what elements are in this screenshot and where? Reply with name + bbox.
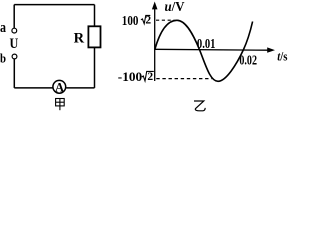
wire top (14, 4, 94, 6)
svg-text:2: 2 (147, 71, 153, 83)
svg-text:b: b (0, 51, 6, 66)
terminal a (12, 28, 17, 33)
svg-text:U: U (10, 36, 19, 52)
wire left upper (13, 5, 15, 29)
wire left lower (13, 59, 15, 88)
label jia (circuit caption) (56, 99, 65, 111)
svg-text:100: 100 (122, 13, 139, 28)
terminal b (12, 54, 17, 59)
x-axis t (155, 47, 275, 52)
wire bottom right (66, 87, 94, 89)
svg-text:0.01: 0.01 (197, 37, 216, 52)
svg-text:R: R (74, 31, 85, 47)
sine curve u(t) (155, 20, 253, 81)
dashed peak level (156, 19, 175, 21)
label 100sqrt2 (122, 13, 152, 28)
svg-text:u/V: u/V (165, 0, 185, 15)
wire bottom left (14, 87, 53, 89)
ammeter A1 (53, 80, 66, 94)
svg-text:A: A (55, 81, 64, 95)
wire right lower (94, 47, 96, 88)
y-axis u (152, 2, 158, 82)
label yi (graph caption) (194, 101, 205, 111)
dashed trough level (156, 78, 212, 80)
svg-text:t/s: t/s (277, 50, 287, 64)
svg-text:a: a (0, 20, 6, 36)
svg-text:2: 2 (145, 15, 151, 27)
wire right upper (94, 5, 96, 27)
svg-text:0.02: 0.02 (239, 52, 257, 67)
label -100sqrt2 (118, 69, 154, 84)
svg-text:-100: -100 (118, 69, 142, 84)
resistor R (88, 26, 100, 47)
